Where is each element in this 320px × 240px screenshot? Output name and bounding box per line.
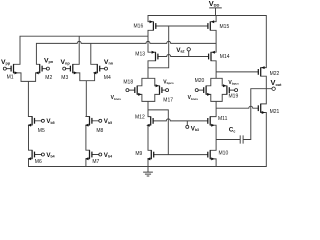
svg-text:M8: M8: [96, 128, 103, 134]
svg-text:M20: M20: [195, 78, 205, 84]
svg-text:Vbpcs: Vbpcs: [163, 79, 174, 85]
svg-text:M6: M6: [35, 159, 42, 165]
svg-text:M9: M9: [135, 151, 142, 157]
svg-text:M13: M13: [135, 51, 145, 57]
svg-text:Vbpcs: Vbpcs: [228, 80, 239, 86]
svg-text:Vbncs: Vbncs: [111, 95, 122, 101]
svg-text:M17: M17: [163, 98, 173, 104]
svg-text:M19: M19: [229, 94, 239, 100]
svg-text:M2: M2: [45, 75, 52, 81]
svg-text:M3: M3: [61, 75, 68, 81]
svg-text:M7: M7: [92, 159, 99, 165]
svg-text:M4: M4: [104, 75, 111, 81]
svg-text:M21: M21: [270, 109, 280, 115]
svg-text:M14: M14: [220, 54, 230, 60]
svg-text:M1: M1: [7, 74, 14, 80]
svg-text:M5: M5: [38, 128, 45, 134]
svg-text:M10: M10: [219, 151, 229, 157]
svg-text:M12: M12: [135, 115, 145, 121]
svg-text:M15: M15: [220, 24, 230, 30]
svg-text:M16: M16: [134, 23, 144, 29]
svg-text:Vbncs: Vbncs: [188, 95, 199, 101]
svg-text:M11: M11: [218, 116, 228, 122]
svg-text:M22: M22: [270, 71, 280, 77]
svg-text:M18: M18: [123, 79, 133, 85]
